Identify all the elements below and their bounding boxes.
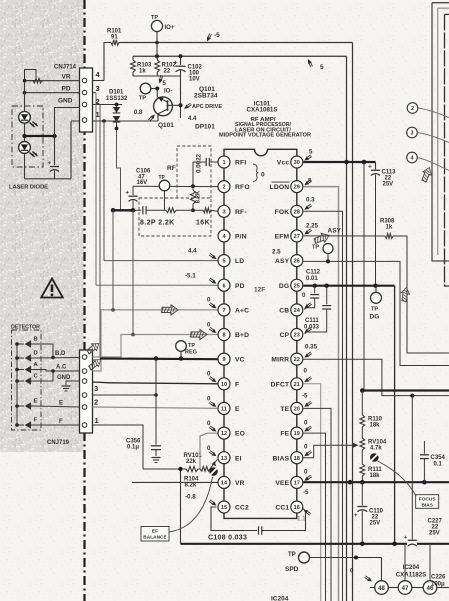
svg-text:0.0022: 0.0022 — [196, 153, 203, 172]
svg-text:-5.1: -5.1 — [185, 273, 196, 280]
label C102 100 10V — [188, 65, 203, 83]
IC101 pin 19 (FE) — [291, 427, 303, 439]
signal arrow B+D — [190, 330, 207, 340]
svg-text:+: + — [174, 61, 178, 67]
svg-text:IC204: IC204 — [271, 596, 289, 601]
svg-text:0: 0 — [350, 568, 354, 575]
pin label TE — [280, 406, 289, 413]
svg-text:IO+: IO+ — [165, 25, 175, 31]
wire PD net (laser monitor to pin3) — [23, 91, 80, 95]
wire EO hook — [200, 433, 218, 469]
svg-text:10V: 10V — [189, 77, 200, 83]
voltage label 0 pin48 — [350, 568, 372, 582]
signal arrow right block — [419, 166, 433, 184]
voltage label 2.25 pin27 — [304, 223, 318, 235]
svg-text:19: 19 — [294, 431, 300, 437]
pin label E — [235, 406, 240, 413]
wire FE net — [303, 433, 325, 601]
potentiometer (pickup power adjust) box — [25, 70, 37, 81]
wire D101 to RF node — [117, 130, 121, 210]
label PD — [62, 86, 71, 93]
svg-text:25: 25 — [294, 283, 300, 289]
svg-text:C226: C226 — [431, 575, 446, 581]
connector CNJ719 pin row 5 — [82, 369, 87, 374]
connector CNJ719 pin row 2 — [82, 405, 87, 410]
svg-text:-0.8: -0.8 — [185, 494, 196, 501]
svg-text:VEE: VEE — [275, 480, 289, 487]
pin label CB — [279, 308, 289, 315]
wire TE net — [303, 408, 331, 601]
transistor Q101 — [154, 89, 181, 122]
wire RFO net — [133, 184, 218, 188]
svg-text:+: + — [48, 161, 52, 167]
node laser common bar — [22, 134, 56, 138]
wire node to A+C — [112, 210, 114, 310]
diode D101 (dual) — [113, 105, 121, 131]
label R308 1k — [380, 219, 395, 231]
label C226 100u — [431, 575, 446, 588]
svg-text:12: 12 — [221, 431, 227, 437]
pin number 3 CNJ714 — [96, 84, 100, 93]
label 12F — [254, 287, 265, 294]
svg-text:25V: 25V — [429, 531, 440, 537]
label 5 on rail — [308, 59, 324, 71]
label 8.2K — [196, 190, 202, 203]
photodiode B — [15, 341, 34, 348]
wire DG net heavy — [303, 284, 394, 288]
label C112 0.01 — [306, 270, 321, 282]
svg-text:18k: 18k — [370, 473, 381, 479]
ground symbol detector — [62, 386, 71, 391]
pin label LD — [235, 258, 244, 265]
svg-text:BIAS: BIAS — [421, 502, 433, 508]
svg-text:F: F — [59, 419, 63, 425]
IC101 pin 16 (CC1) — [291, 501, 303, 513]
svg-text:13: 13 — [221, 456, 227, 462]
svg-text:RFI: RFI — [235, 160, 246, 167]
wire EFM net — [303, 235, 385, 237]
svg-text:0: 0 — [304, 469, 308, 476]
label IC101 function — [219, 117, 311, 139]
label CNJ714 — [54, 65, 77, 71]
laser diode LD1 — [19, 111, 38, 127]
label diode F — [34, 418, 38, 424]
wire -5 heavy line — [360, 388, 449, 393]
svg-text:GND: GND — [58, 98, 73, 105]
svg-text:27: 27 — [294, 234, 300, 240]
wire E-F bias — [143, 467, 186, 471]
IC101 pin 11 (E) — [218, 402, 230, 414]
label diode A — [34, 362, 39, 368]
svg-text:EO: EO — [235, 431, 245, 438]
resistor RV (on VR wire) — [33, 79, 42, 83]
label RV104 4.7k — [368, 440, 387, 452]
wire DFCT net — [303, 384, 320, 601]
adjuster screw RV101 — [209, 467, 218, 476]
svg-text:Q101: Q101 — [158, 122, 174, 129]
label DP101 — [195, 124, 215, 131]
pin label VR — [235, 480, 245, 487]
label GND det — [57, 375, 71, 381]
label C113 22 25V — [382, 170, 397, 188]
label E net — [59, 401, 63, 407]
test point TP RF — [159, 165, 176, 210]
signal arrow A.C — [87, 356, 104, 372]
svg-text:DG: DG — [279, 283, 289, 290]
voltage label 5 pin29 — [304, 178, 312, 186]
svg-text:15: 15 — [221, 505, 227, 511]
svg-text:1: 1 — [222, 160, 225, 166]
svg-text:5: 5 — [222, 259, 225, 265]
capacitor 8.2P — [133, 206, 166, 214]
svg-text:RFO: RFO — [235, 184, 250, 191]
svg-text:B+D: B+D — [235, 332, 249, 339]
wire C102 base column — [179, 76, 183, 118]
wire E to pin11 — [93, 407, 218, 408]
label IC204 CXA1182S — [396, 564, 427, 579]
svg-text:D: D — [34, 351, 38, 357]
IC101 pin 22 (MIRR) — [291, 353, 303, 365]
pin label MIRR — [271, 357, 289, 364]
svg-text:C111: C111 — [305, 318, 319, 324]
wire laser gnd to connector — [55, 108, 81, 137]
wire C to AC join — [34, 369, 55, 381]
wire +5 rail — [133, 56, 347, 601]
svg-text:3: 3 — [410, 131, 413, 137]
svg-text:MIDPOINT VOLTAGE GENERATOR: MIDPOINT VOLTAGE GENERATOR — [219, 133, 311, 139]
svg-text:2: 2 — [411, 106, 414, 112]
svg-text:16V: 16V — [137, 180, 148, 186]
label 4.4 base — [184, 103, 197, 122]
pin number 4 CNJ714 — [96, 70, 101, 79]
photodiode D — [15, 355, 34, 362]
svg-text:28: 28 — [294, 209, 300, 215]
IC101 pin 6 (PD) — [218, 279, 230, 291]
resistor R111 — [360, 450, 365, 482]
svg-text:25V: 25V — [383, 182, 394, 188]
far-right block inner — [445, 14, 449, 286]
IC101 pin 26 (ASY) — [291, 255, 303, 267]
svg-text:CC1: CC1 — [275, 505, 289, 512]
test point TP DG — [370, 286, 382, 321]
label VR — [62, 74, 71, 81]
svg-text:0.033: 0.033 — [304, 325, 320, 331]
voltage label 0 pin13 — [207, 445, 217, 456]
label APC DRIVE — [192, 104, 223, 110]
label 8.2P 2.2K 16K — [140, 220, 210, 227]
resistor 2.2K — [166, 208, 203, 213]
svg-text:RF-: RF- — [235, 209, 247, 216]
IC101 pin 3 (RF-) — [218, 205, 230, 217]
svg-text:0.35: 0.35 — [305, 344, 318, 351]
svg-text:DFCT: DFCT — [271, 381, 290, 388]
label R103 1k — [137, 63, 152, 75]
connector CNJ719 pin row 6 — [82, 355, 87, 360]
laser diode LD2 (monitor) — [19, 142, 38, 158]
voltage label 0 pin19 — [304, 426, 312, 451]
pin label PD — [235, 283, 245, 290]
wire GND vertical — [99, 105, 101, 359]
svg-text:LD: LD — [235, 258, 244, 265]
svg-text:29: 29 — [294, 185, 300, 191]
svg-text:2.5: 2.5 — [272, 249, 281, 256]
svg-text:0.3: 0.3 — [306, 197, 315, 204]
capacitor C102 — [174, 56, 186, 76]
IC101 pin 24 (CB) — [291, 304, 303, 316]
svg-text:EF: EF — [152, 529, 158, 535]
IC204 pin 48 — [370, 581, 388, 595]
svg-text:P/N: P/N — [235, 234, 247, 241]
svg-text:IO-: IO- — [164, 89, 172, 95]
svg-text:47: 47 — [402, 586, 409, 592]
capacitor C110 — [354, 482, 367, 544]
wire laser cathode return — [70, 121, 72, 179]
pickup boundary dash-dot line — [83, 0, 85, 601]
pin label CP — [280, 332, 290, 339]
label 5 IO- — [159, 75, 173, 94]
svg-text:MIRR: MIRR — [271, 357, 289, 364]
svg-text:3: 3 — [94, 384, 98, 393]
wire BIAS net — [303, 443, 358, 458]
label C108 0.033 — [208, 535, 247, 542]
svg-text:LASER DIODE: LASER DIODE — [9, 185, 48, 191]
voltage label 0 pin11 — [207, 396, 217, 407]
pin label EFM — [275, 234, 290, 241]
pin label RF- — [235, 209, 247, 216]
resistor R103 — [131, 56, 136, 76]
svg-text:100μ: 100μ — [431, 582, 445, 588]
capacitor C108 — [211, 507, 306, 535]
pointer arc EF balance — [169, 477, 213, 532]
connector CNJ719 pin row 1 — [82, 423, 87, 428]
potentiometer RV104 — [360, 427, 365, 450]
svg-text:0: 0 — [304, 420, 308, 427]
svg-text:E: E — [235, 406, 240, 413]
svg-text:-5: -5 — [302, 393, 308, 400]
svg-text:11: 11 — [221, 407, 227, 413]
svg-text:22: 22 — [164, 69, 171, 75]
pin label CC1 — [275, 505, 289, 512]
svg-text:LDON: LDON — [270, 184, 290, 191]
connector CNJ719 box — [80, 350, 93, 433]
wire det GND stub — [66, 381, 80, 385]
capacitor C103 0.0022 — [193, 158, 218, 185]
svg-text:VR: VR — [235, 480, 245, 487]
brace RFI RFO — [253, 164, 259, 182]
pin label Vcc — [277, 160, 290, 167]
pin label EO — [235, 431, 245, 438]
capacitor C111 — [305, 286, 332, 334]
voltage label -0.8 pin15 — [185, 494, 217, 506]
svg-text:CXA1182S: CXA1182S — [396, 572, 427, 579]
wire B to BD join — [34, 344, 55, 359]
pin number 2 CNJ719 — [94, 398, 98, 407]
label diode B — [34, 337, 38, 343]
capacitor C106 — [126, 186, 138, 210]
signal arrow ASY label — [312, 228, 341, 246]
svg-text:A.C: A.C — [56, 365, 67, 371]
voltage label 0 pin20 — [304, 401, 312, 426]
pin number 3 CNJ719 — [94, 384, 98, 393]
svg-text:5: 5 — [309, 149, 313, 156]
IC101 pin 23 (CP) — [291, 329, 303, 341]
capacitor C354 — [420, 441, 429, 482]
IC101 pin 5 (LD) — [218, 255, 230, 267]
wire detector bus — [16, 344, 18, 425]
label Q101 2SB734 — [194, 86, 218, 100]
capacitor C356 — [151, 359, 161, 457]
wire -5 rail — [93, 43, 353, 601]
label R104 8.2k — [184, 477, 199, 489]
label B.D — [55, 351, 66, 357]
label C354 0.1 — [431, 455, 446, 468]
svg-text:C108 0.033: C108 0.033 — [208, 535, 247, 542]
svg-text:DG: DG — [370, 314, 380, 321]
svg-text:CB: CB — [279, 308, 289, 315]
svg-text:EI: EI — [235, 455, 242, 462]
svg-text:8.2P 2.2K: 8.2P 2.2K — [140, 220, 175, 227]
svg-text:TP: TP — [188, 343, 195, 349]
svg-text:-5: -5 — [214, 32, 220, 39]
svg-text:TP: TP — [151, 15, 158, 21]
wire node to B+D — [132, 210, 134, 334]
svg-text:PD: PD — [62, 86, 71, 93]
wire MIRR net — [303, 359, 449, 397]
svg-text:4.4: 4.4 — [188, 248, 197, 255]
svg-text:5: 5 — [320, 64, 324, 71]
IC101 pin 7 (A+C) — [218, 304, 230, 316]
IC101 pin 20 (TE) — [291, 402, 303, 414]
svg-text:+: + — [354, 513, 358, 519]
terminal circle 4 — [407, 152, 449, 170]
svg-text:4.4: 4.4 — [188, 116, 197, 122]
signal arrow A+C — [161, 305, 178, 315]
wire Vcc net heavy — [303, 160, 375, 165]
test point TP REG — [176, 341, 197, 359]
pin label RFI — [235, 160, 246, 167]
pointer arc focus bias — [378, 461, 417, 496]
wire bottom left riser — [180, 469, 182, 544]
svg-text:FOCUS: FOCUS — [419, 497, 437, 503]
svg-text:D101: D101 — [109, 90, 124, 96]
svg-text:B: B — [34, 337, 38, 343]
resistor R308 — [385, 234, 393, 239]
far-right block middle — [438, 8, 449, 255]
svg-text:TP: TP — [159, 175, 166, 181]
connector CNJ714 pin 1 — [82, 118, 87, 123]
svg-text:21: 21 — [294, 382, 300, 388]
svg-text:BALANCE: BALANCE — [143, 535, 167, 541]
voltage label -5.1 pin6 — [185, 273, 217, 284]
wire PD vertical — [93, 93, 218, 286]
label RV101 22k — [184, 453, 203, 465]
svg-text:1k: 1k — [139, 69, 146, 75]
label R101 — [107, 29, 122, 41]
svg-text:+: + — [368, 164, 372, 171]
dashed box RFI cap — [177, 146, 211, 198]
label R111 18k — [368, 467, 382, 479]
warning triangle symbol — [41, 279, 63, 298]
label 0.8 — [134, 110, 155, 121]
test point TP SPD — [285, 552, 310, 573]
svg-text:1: 1 — [95, 416, 99, 425]
IC101 pin 13 (EI) — [218, 452, 230, 464]
label box EF BALANCE — [141, 527, 169, 542]
svg-text:20: 20 — [294, 407, 300, 413]
connector CNJ714 pin 2 — [82, 102, 87, 107]
svg-text:BIAS: BIAS — [273, 455, 290, 462]
IC101 pin 27 (EFM) — [291, 230, 303, 242]
IC101 pin 12 (EO) — [218, 427, 230, 439]
svg-text:VR: VR — [62, 74, 71, 81]
voltage label 0 pin7 — [207, 297, 217, 309]
svg-text:0: 0 — [304, 368, 308, 375]
svg-text:RF: RF — [167, 165, 176, 172]
svg-text:DETECTOR: DETECTOR — [11, 325, 40, 331]
svg-text:C112: C112 — [306, 270, 321, 276]
wire bottom return heavy — [181, 542, 449, 547]
pin label P/N — [235, 234, 247, 241]
svg-text:2: 2 — [96, 97, 100, 106]
svg-text:10: 10 — [221, 382, 227, 388]
label C106 47 16V — [136, 169, 151, 187]
terminal circle 2 — [407, 103, 449, 118]
svg-text:TP: TP — [371, 307, 378, 313]
svg-text:9: 9 — [222, 357, 225, 363]
label C110 22 25V — [369, 509, 384, 527]
connector CNJ714 box — [80, 68, 93, 132]
svg-text:CNJ719: CNJ719 — [47, 440, 70, 446]
svg-text:1SS132: 1SS132 — [106, 96, 128, 102]
voltage label 0.35 pin23 — [304, 327, 317, 350]
svg-text:CC2: CC2 — [235, 505, 249, 512]
svg-text:2: 2 — [222, 185, 225, 191]
label Q101 under transistor — [158, 122, 174, 129]
IC101 pin 17 (VEE) — [291, 476, 303, 488]
ground symbol C356 — [152, 458, 161, 463]
capacitor C227 — [404, 535, 417, 546]
capacitor in laser block — [48, 136, 60, 179]
pin label RFO — [235, 184, 250, 191]
svg-text:TE: TE — [280, 406, 289, 413]
IC101 pin 9 (VC) — [218, 353, 230, 365]
svg-text:8.2k: 8.2k — [185, 483, 197, 489]
svg-text:E: E — [59, 401, 63, 407]
wire VR net (pin4 to pot) — [23, 79, 80, 83]
capacitor C112 — [304, 286, 319, 310]
pin label FE — [280, 431, 289, 438]
test point TP IO+ — [151, 15, 175, 56]
wire MIRR junction down — [411, 396, 413, 540]
test point TP IO- — [139, 83, 159, 101]
pin number 1 CNJ714 — [96, 110, 100, 119]
wire Vcc to bias divider — [363, 162, 365, 391]
pin label FOK — [275, 209, 290, 216]
potentiometer RV101 — [200, 460, 217, 472]
label GND — [58, 98, 73, 105]
label diode C — [34, 374, 39, 380]
IC101 pin 29 (LDON) — [291, 181, 303, 193]
wire SPD net — [310, 556, 382, 581]
svg-text:+: + — [126, 191, 130, 197]
resistor R101 — [111, 40, 119, 45]
svg-text:0.1: 0.1 — [434, 462, 443, 468]
photodiode E — [15, 403, 34, 410]
test point TP ASY — [312, 244, 333, 264]
IC101 pin 2 (RFO) — [218, 181, 230, 193]
svg-text:1.1: 1.1 — [297, 516, 306, 523]
svg-text:REG: REG — [185, 350, 197, 356]
